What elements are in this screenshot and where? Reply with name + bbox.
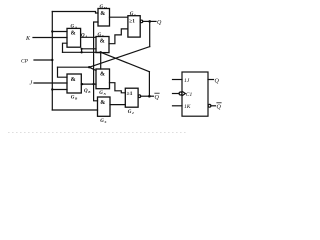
svg-text:&: & <box>100 100 105 106</box>
svg-text:&: & <box>100 11 105 17</box>
svg-text:CP: CP <box>21 59 29 65</box>
svg-text:1K: 1K <box>184 104 191 110</box>
and-gate G3 label <box>100 5 108 10</box>
nor-gate NOR2 label <box>128 110 134 115</box>
wire CP vertical bus <box>51 12 53 111</box>
pin Qbar label <box>217 105 222 111</box>
wire G3 output to NOR1 input1 <box>110 16 128 18</box>
output Qbar overline <box>155 92 159 94</box>
wire diagonal D2 Qbar cross-coupling <box>101 52 150 71</box>
node CP bus / GA input1 <box>51 30 53 32</box>
pin 1K label <box>184 104 191 110</box>
wire Q feedback vertical <box>149 21 151 46</box>
svg-text:Q: Q <box>217 105 222 111</box>
output Qbar label <box>155 95 160 101</box>
svg-text:Q: Q <box>157 20 162 26</box>
svg-text:&: & <box>71 77 76 83</box>
and-gate G2 & symbol <box>100 72 105 78</box>
and-gate G2 label <box>99 91 106 96</box>
svg-text:J: J <box>30 80 33 86</box>
wire GA output QA to G1 input1 <box>81 36 96 38</box>
nor-gate NOR1 output bubble <box>140 20 143 23</box>
wire Q feedback horizontal run <box>58 66 90 68</box>
svg-text:1J: 1J <box>184 78 190 84</box>
label QA <box>81 34 87 39</box>
pin 1K input stub <box>173 105 183 107</box>
input K label <box>25 36 31 42</box>
input CP label <box>21 59 29 65</box>
wire NOR2 output to Qbar terminal <box>141 95 154 97</box>
wire K to gate GA input2 <box>33 37 67 39</box>
nor-gate NOR1 box <box>128 16 140 37</box>
wire GB output QB to G2 input2 <box>81 83 96 85</box>
wire drop into G2 top edge <box>100 52 102 69</box>
and-gate G1 & symbol <box>100 39 105 45</box>
pin C1 polarity bubble <box>179 92 182 95</box>
wire NOR1 output to Q terminal <box>143 20 156 22</box>
nor-gate NOR2 output bubble <box>138 95 141 98</box>
node CP joins bus <box>51 59 53 61</box>
svg-text:Q: Q <box>155 95 160 101</box>
svg-text:A: A <box>84 35 87 39</box>
svg-text:&: & <box>100 72 105 78</box>
node Qbar junction <box>148 95 151 98</box>
svg-text:Q: Q <box>215 78 220 84</box>
pin Qbar output bubble <box>208 104 211 107</box>
svg-text:1: 1 <box>134 13 136 17</box>
svg-text:≥1: ≥1 <box>127 91 133 97</box>
pin Q output stub <box>208 79 214 81</box>
svg-text:C1: C1 <box>186 92 193 98</box>
pin Qbar output stub <box>211 105 216 107</box>
wire G4 output to NOR2 input2 <box>110 104 125 106</box>
label QB <box>84 89 90 94</box>
wire G3 input2 riser from GB output <box>94 22 98 101</box>
and-gate G1 label <box>98 33 105 38</box>
wire J to gate GB input2 <box>34 82 67 84</box>
node at GB output pin <box>81 83 83 85</box>
wire G2 output staircase to NOR2 input1 <box>110 83 126 93</box>
and-gate GA box <box>67 28 81 47</box>
pin C1 dynamic clock triangle <box>182 91 185 96</box>
svg-text:2: 2 <box>131 111 134 115</box>
pin C1 input stub <box>173 93 180 95</box>
node jog corner <box>81 48 83 50</box>
wire GA input3 elbow from Qbar net <box>63 43 68 52</box>
svg-text:S: S <box>105 120 107 124</box>
wire jog up to G1 input2 <box>82 49 96 53</box>
pin Qbar overline <box>217 102 221 104</box>
and-gate GB & symbol <box>71 77 76 83</box>
wire CP bus bottom run to G4 <box>52 109 97 111</box>
faint caption remnants <box>8 132 188 134</box>
and-gate G2 box <box>96 69 110 89</box>
svg-text:&: & <box>100 39 105 45</box>
and-gate GB box <box>67 74 81 93</box>
wire Qbar net horizontal run <box>63 51 101 53</box>
wire diagonal D1 Q cross-coupling <box>89 47 150 68</box>
node Qbar net branch to G1 input2 <box>80 51 82 53</box>
and-gate G1 box <box>96 37 109 53</box>
nor-gate NOR1 label <box>130 12 136 17</box>
node Qbar net / drop to G2 top <box>100 51 102 53</box>
wire CP to vertical CP bus <box>34 59 52 61</box>
and-gate G3 & symbol <box>100 11 105 17</box>
and-gate G3 box <box>98 9 110 27</box>
and-gate G4 & symbol <box>100 100 105 106</box>
input J label <box>30 80 33 86</box>
and-gate GA & symbol <box>71 31 76 37</box>
and-gate G4 label <box>100 119 106 124</box>
pin Q label <box>215 78 220 84</box>
nor-gate NOR2 box <box>125 88 138 107</box>
wire riser into GB input1 <box>58 67 68 77</box>
wire G1 output staircase to NOR1 input2 <box>109 29 128 44</box>
pin C1 label <box>186 92 193 98</box>
node CP bus / GB input3 <box>51 88 53 90</box>
svg-text:N: N <box>103 92 107 96</box>
node riser on GB output wire <box>92 83 94 85</box>
and-gate GA label <box>71 25 78 30</box>
node Q junction <box>148 20 151 23</box>
svg-text:≥1: ≥1 <box>129 18 135 24</box>
pin 1J input stub <box>173 79 183 81</box>
wire GA input1 <box>52 31 67 33</box>
and-gate G4 box <box>98 97 111 116</box>
pin 1J label <box>184 78 190 84</box>
nor-gate NOR1 symbol <box>129 18 135 24</box>
wire slant D1 into G2 input1 <box>89 67 96 70</box>
and-gate GB label <box>71 95 78 100</box>
node D1 to GB input1 branch <box>88 66 90 68</box>
wire GB input3 <box>52 89 67 91</box>
wire Qbar riser to output node <box>148 72 150 97</box>
wire top run CP bus to G3 input1 <box>52 12 98 14</box>
svg-text:&: & <box>71 31 76 37</box>
output Q label <box>157 20 162 26</box>
IEC JK flip-flop box U1 <box>182 72 208 116</box>
nor-gate NOR2 symbol <box>127 91 133 97</box>
svg-text:B: B <box>87 90 90 94</box>
